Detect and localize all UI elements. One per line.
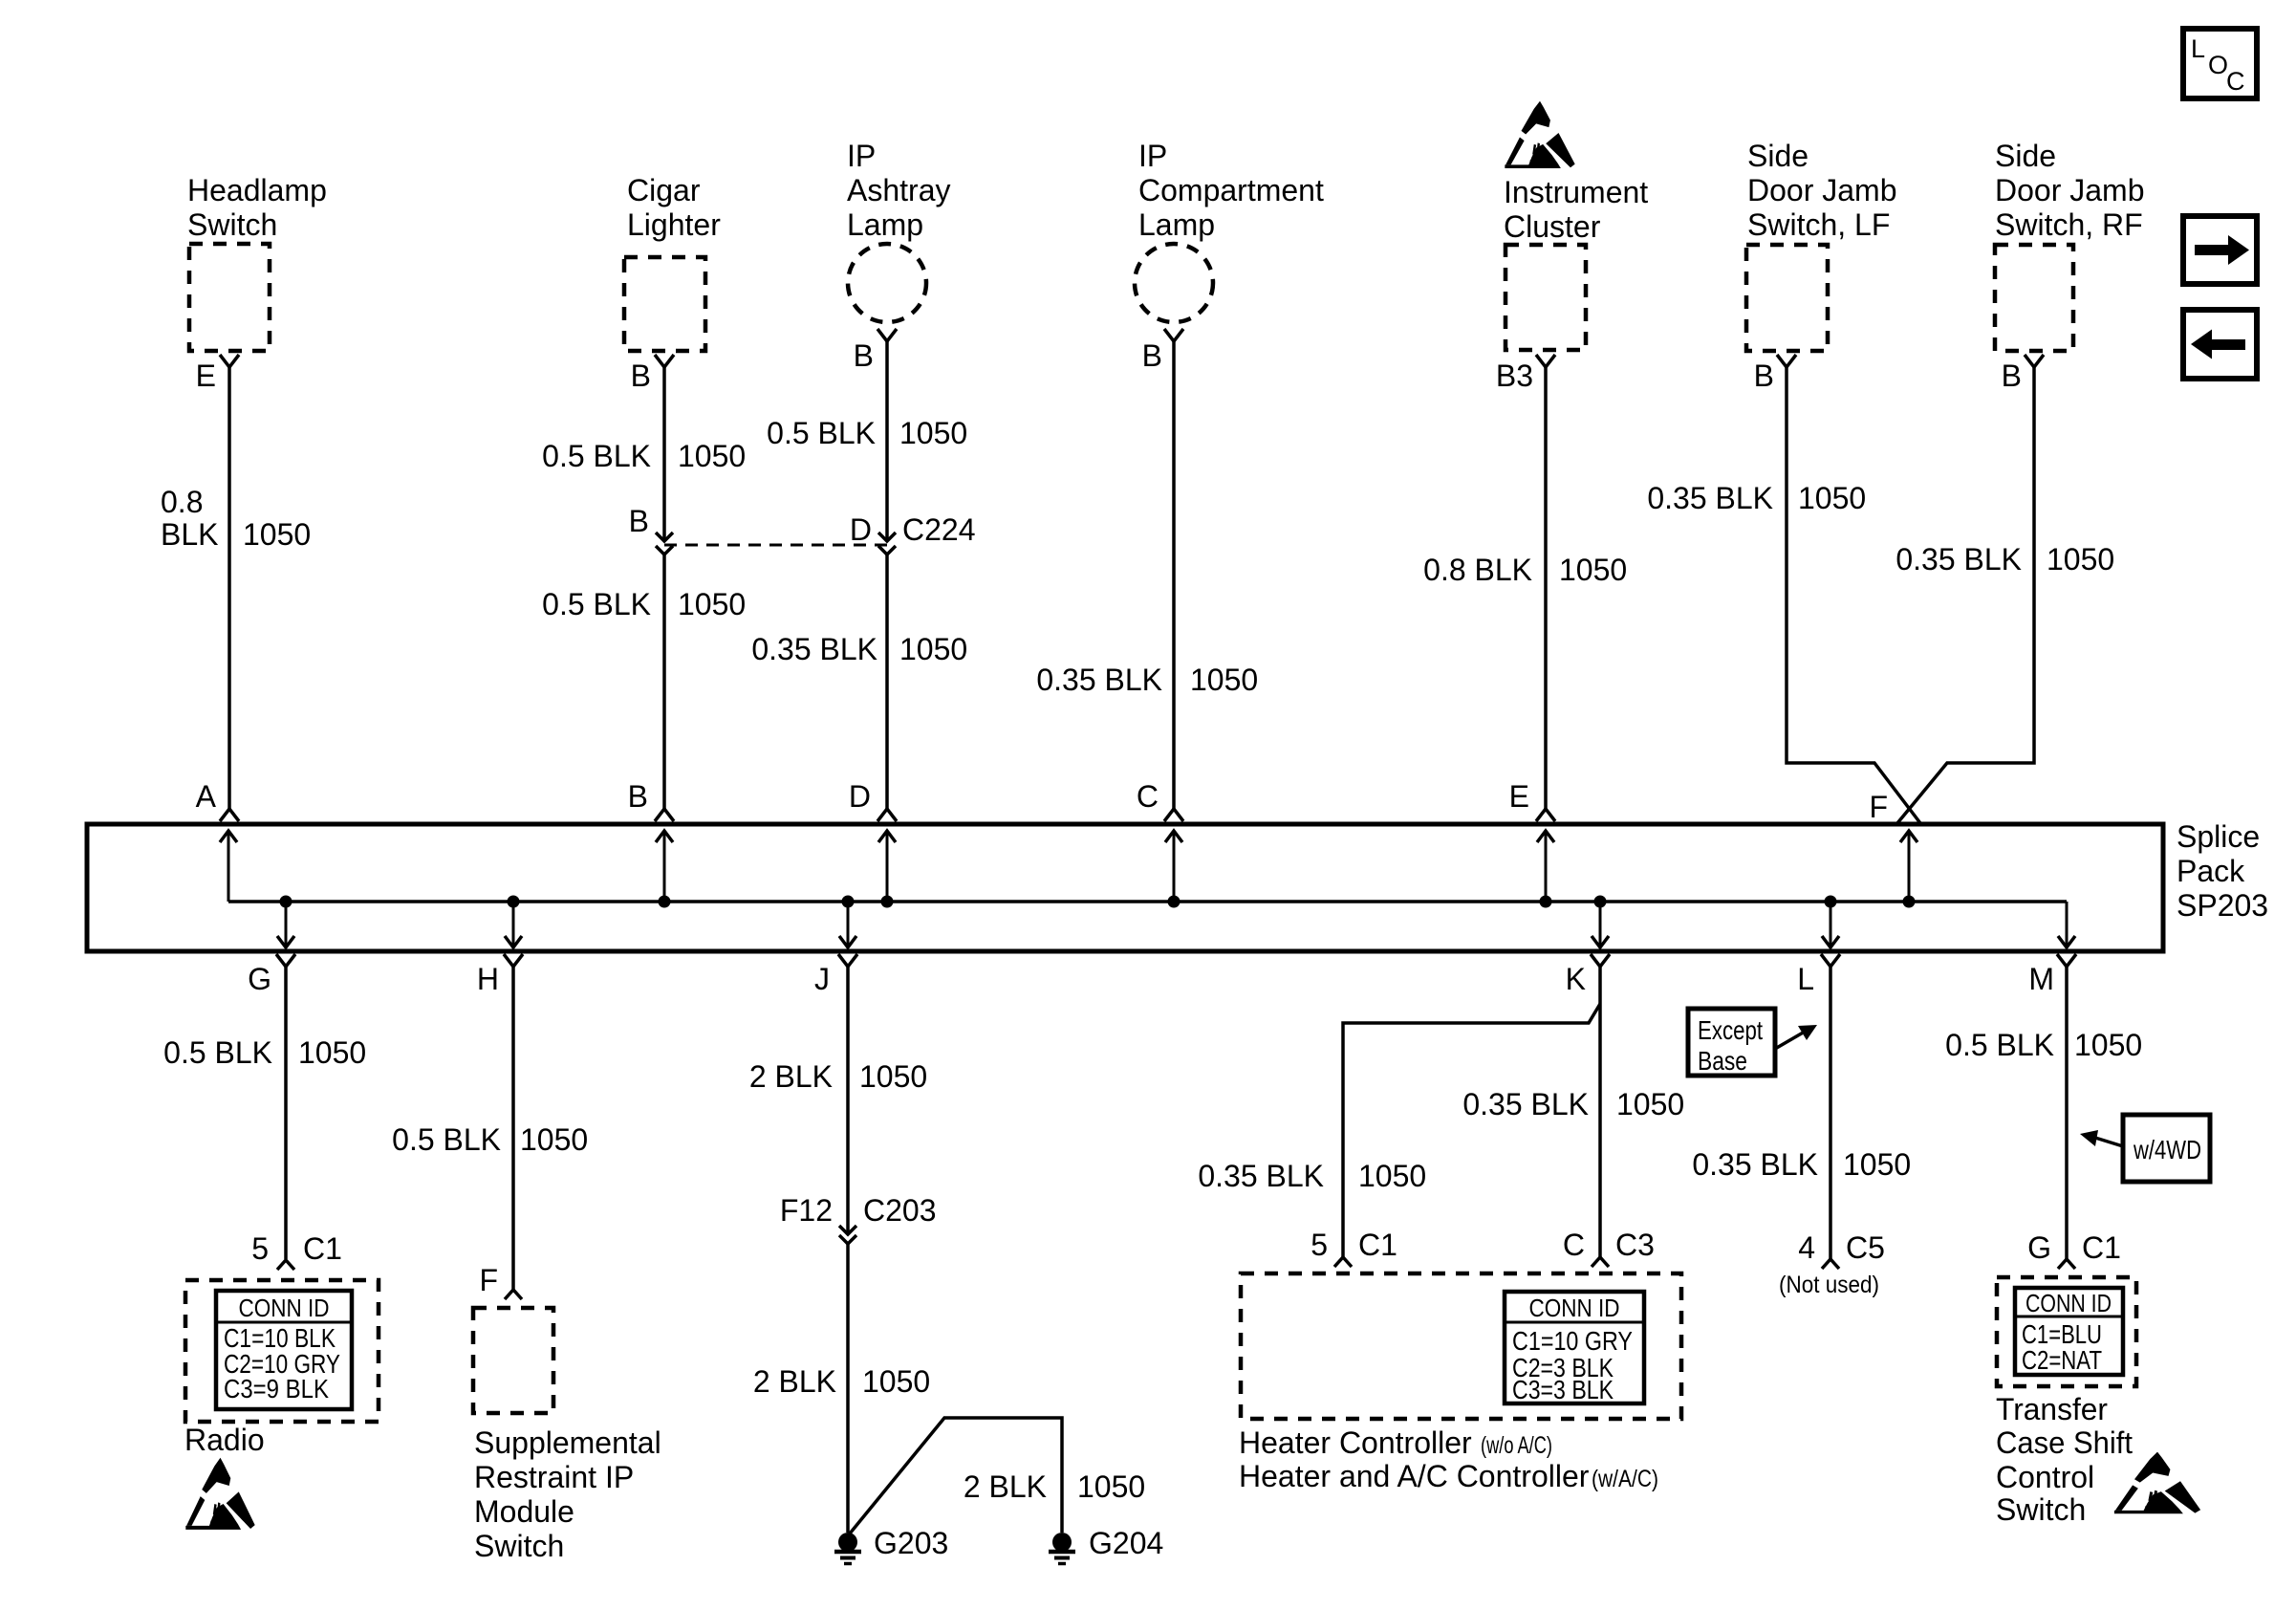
svg-text:B3: B3 — [1496, 359, 1533, 393]
svg-text:SP203: SP203 — [2177, 888, 2268, 923]
side door jamb switch RF component — [1995, 139, 2145, 351]
svg-text:H: H — [477, 962, 499, 996]
svg-text:Module: Module — [474, 1494, 574, 1529]
svg-text:Door Jamb: Door Jamb — [1747, 173, 1897, 207]
wire label 0.35 BLK 1050 — [751, 632, 967, 666]
wire label 0.35 BLK 1050 — [1647, 481, 1866, 515]
junction dot E — [1540, 896, 1552, 908]
connector fork at splice node H — [477, 954, 523, 996]
radio pin 5 C1 labels — [251, 1231, 342, 1266]
svg-text:CONN ID: CONN ID — [2025, 1289, 2112, 1317]
svg-text:Door Jamb: Door Jamb — [1995, 173, 2145, 207]
svg-text:E: E — [1509, 779, 1529, 814]
ESD symbol beside transfer case switch — [2114, 1452, 2200, 1514]
svg-text:Pack: Pack — [2177, 854, 2245, 888]
svg-text:BLK: BLK — [161, 517, 218, 552]
svg-text:(w/A/C): (w/A/C) — [1592, 1466, 1658, 1492]
connector C224 pin D label — [850, 512, 976, 547]
svg-text:Switch: Switch — [474, 1529, 564, 1563]
heater CONN ID table — [1505, 1292, 1644, 1404]
svg-text:Headlamp: Headlamp — [187, 173, 327, 207]
junction dot L — [1825, 896, 1837, 908]
svg-text:C2=NAT: C2=NAT — [2022, 1345, 2102, 1375]
svg-text:1050: 1050 — [243, 517, 311, 552]
wire label 0.5 BLK 1050 — [1945, 1028, 2142, 1062]
svg-text:1050: 1050 — [862, 1364, 930, 1399]
connector C203 pin F12 labels — [780, 1193, 937, 1228]
svg-text:B: B — [628, 779, 648, 814]
splice riser B — [656, 831, 673, 902]
wire label 0.5 BLK 1050 lower — [542, 587, 746, 621]
splice node F label — [1869, 790, 1888, 824]
svg-text:C224: C224 — [902, 512, 976, 547]
splice riser H — [505, 902, 522, 947]
svg-text:0.35 BLK: 0.35 BLK — [1036, 663, 1162, 697]
svg-text:5: 5 — [1310, 1228, 1328, 1262]
splice riser J — [839, 902, 856, 947]
wire label 0.35 BLK 1050 on K branch — [1198, 1159, 1426, 1193]
wire splice J to connector C203 — [846, 967, 850, 1234]
SRS pin F label — [479, 1263, 498, 1297]
svg-text:C1: C1 — [2082, 1230, 2121, 1265]
svg-text:Side: Side — [1995, 139, 2056, 173]
svg-text:1050: 1050 — [859, 1059, 927, 1094]
svg-text:0.5 BLK: 0.5 BLK — [163, 1035, 272, 1070]
junction dot C — [1168, 896, 1180, 908]
svg-text:1050: 1050 — [1843, 1147, 1911, 1182]
svg-text:1050: 1050 — [899, 416, 967, 450]
ESD symbol above instrument cluster — [1505, 101, 1574, 168]
wire label 2 BLK 1050 — [749, 1059, 927, 1094]
svg-text:1050: 1050 — [1190, 663, 1258, 697]
wire label 0.35 BLK 1050 — [1692, 1147, 1911, 1182]
dashed connector line C224 — [664, 544, 887, 547]
svg-text:C: C — [2226, 67, 2245, 96]
svg-text:D: D — [849, 779, 871, 814]
svg-text:1050: 1050 — [1077, 1469, 1145, 1504]
heater pin C C3 labels — [1563, 1228, 1655, 1262]
IP compartment lamp component — [1135, 139, 1324, 322]
heater pin 5 C1 labels — [1310, 1228, 1397, 1262]
transfer CONN ID table — [2015, 1288, 2123, 1375]
svg-text:Case Shift: Case Shift — [1996, 1425, 2133, 1460]
svg-text:CONN ID: CONN ID — [239, 1294, 330, 1322]
svg-text:G: G — [2027, 1230, 2051, 1265]
connector fork pin E of headlamp switch — [196, 355, 239, 393]
IP ashtray lamp component — [847, 139, 950, 322]
svg-text:C: C — [1563, 1228, 1585, 1262]
LOC legend box — [2183, 29, 2257, 98]
splice riser L — [1822, 902, 1839, 947]
radio label — [184, 1423, 265, 1457]
connector fork at splice node D — [849, 779, 897, 821]
svg-text:B: B — [629, 504, 649, 538]
svg-text:E: E — [196, 359, 216, 393]
in-line connector C224 at ashtray wire — [878, 533, 896, 555]
svg-text:1050: 1050 — [298, 1035, 366, 1070]
connector fork pin B of ashtray lamp — [854, 329, 897, 373]
transfer pin G C1 labels — [2027, 1230, 2121, 1265]
svg-text:Compartment: Compartment — [1138, 173, 1324, 207]
svg-text:Restraint IP: Restraint IP — [474, 1460, 634, 1494]
splice riser M — [2058, 902, 2075, 947]
svg-text:2 BLK: 2 BLK — [749, 1059, 833, 1094]
wire C203 to ground G203 — [846, 1244, 850, 1533]
svg-text:Cigar: Cigar — [627, 173, 701, 207]
side door jamb switch LF component — [1746, 139, 1897, 351]
svg-text:Ashtray: Ashtray — [847, 173, 950, 207]
not used label — [1779, 1272, 1879, 1298]
ground G203 — [834, 1526, 948, 1564]
except base callout box — [1688, 1009, 1817, 1076]
svg-text:C203: C203 — [863, 1193, 937, 1228]
svg-text:0.35 BLK: 0.35 BLK — [1198, 1159, 1324, 1193]
connector fork pin B3 of instrument cluster — [1496, 355, 1555, 393]
splice riser C — [1165, 831, 1182, 902]
svg-text:C1: C1 — [1358, 1228, 1397, 1262]
svg-text:0.35 BLK: 0.35 BLK — [1462, 1087, 1589, 1121]
splice riser K — [1592, 902, 1609, 947]
junction dot D — [881, 896, 894, 908]
svg-text:2 BLK: 2 BLK — [753, 1364, 836, 1399]
svg-text:B: B — [631, 359, 651, 393]
transfer case shift control switch component box — [1997, 1277, 2136, 1386]
connector fork at splice node C — [1137, 779, 1183, 821]
svg-text:C5: C5 — [1846, 1230, 1885, 1265]
svg-text:4: 4 — [1798, 1230, 1815, 1265]
wire cigar C224 to splice B — [662, 555, 666, 809]
svg-text:C3: C3 — [1615, 1228, 1655, 1262]
heater controller labels — [1239, 1425, 1658, 1493]
svg-text:Instrument: Instrument — [1504, 175, 1648, 209]
svg-text:Supplemental: Supplemental — [474, 1425, 661, 1460]
splice pack internal bus wire — [228, 900, 2067, 903]
splice riser D — [878, 831, 896, 902]
connector fork at splice node K — [1566, 954, 1610, 996]
connector fork at splice node M — [2028, 954, 2076, 996]
wire splice K to heater controller C3 — [1598, 967, 1602, 1257]
splice riser A — [220, 831, 237, 902]
splice riser G — [277, 902, 294, 947]
svg-text:0.5 BLK: 0.5 BLK — [542, 439, 651, 473]
svg-text:Lamp: Lamp — [1138, 207, 1215, 242]
wire label 0.8 BLK 1050 — [1423, 553, 1627, 587]
svg-text:2 BLK: 2 BLK — [964, 1469, 1047, 1504]
svg-text:J: J — [814, 962, 830, 996]
w4WD callout box — [2080, 1115, 2210, 1182]
svg-text:Splice: Splice — [2177, 819, 2260, 854]
wire instrument cluster B3 to splice E — [1544, 367, 1548, 809]
connector fork pin B of cigar lighter — [631, 355, 674, 393]
svg-text:B: B — [854, 338, 874, 373]
svg-text:Lamp: Lamp — [847, 207, 923, 242]
svg-text:F12: F12 — [780, 1193, 833, 1228]
instrument cluster component — [1504, 175, 1648, 350]
svg-text:Transfer: Transfer — [1996, 1392, 2108, 1426]
wire jamb switch LF to splice F — [1787, 367, 1920, 823]
svg-text:0.35 BLK: 0.35 BLK — [1647, 481, 1773, 515]
svg-text:1050: 1050 — [1616, 1087, 1684, 1121]
svg-text:0.5 BLK: 0.5 BLK — [542, 587, 651, 621]
svg-text:1050: 1050 — [1559, 553, 1627, 587]
svg-text:Heater and A/C Controller: Heater and A/C Controller — [1239, 1459, 1590, 1493]
wire branch K to heater controller C1 — [1343, 1004, 1600, 1257]
in-line connector C203 — [839, 1226, 856, 1244]
junction dot G — [280, 896, 292, 908]
svg-text:IP: IP — [1138, 139, 1167, 173]
wire label 0.35 BLK 1050 — [1036, 663, 1258, 697]
svg-text:K: K — [1566, 962, 1586, 996]
wire label 0.5 BLK 1050 — [392, 1122, 588, 1157]
wire label 0.5 BLK 1050 — [767, 416, 967, 450]
splice riser F — [1900, 831, 1917, 902]
connector fork at heater pin 5 — [1334, 1257, 1352, 1267]
svg-text:0.35 BLK: 0.35 BLK — [1692, 1147, 1818, 1182]
svg-text:L: L — [2191, 34, 2205, 63]
svg-text:Control: Control — [1996, 1460, 2094, 1494]
svg-text:0.35 BLK: 0.35 BLK — [751, 632, 877, 666]
connector fork pin B of compartment lamp — [1142, 329, 1183, 373]
transfer case shift control switch labels — [1996, 1392, 2133, 1527]
supplemental restraint IP module switch component — [473, 1308, 661, 1563]
svg-text:O: O — [2208, 51, 2228, 79]
wire jamb switch RF to splice F — [1897, 367, 2034, 823]
svg-text:Radio: Radio — [184, 1423, 265, 1457]
wire compartment lamp B to splice C — [1172, 341, 1176, 809]
junction dot F — [1903, 896, 1916, 908]
wire label 0.8 BLK 1050 — [161, 485, 311, 552]
connector fork at splice node B — [628, 779, 674, 821]
svg-text:1050: 1050 — [678, 439, 746, 473]
svg-text:B: B — [1754, 359, 1774, 393]
svg-text:Except: Except — [1698, 1015, 1763, 1045]
wire label 0.35 BLK 1050 — [1895, 542, 2114, 577]
svg-text:(Not used): (Not used) — [1779, 1272, 1879, 1298]
connector fork at splice node L — [1797, 954, 1840, 996]
radio CONN ID table — [216, 1291, 352, 1409]
svg-text:Side: Side — [1747, 139, 1809, 173]
connector fork at transfer pin G — [2058, 1259, 2075, 1269]
headlamp switch component — [187, 173, 327, 351]
wire label 0.35 BLK 1050 on K main — [1462, 1087, 1684, 1121]
connector fork at L pin 4 — [1822, 1259, 1839, 1269]
svg-text:F: F — [479, 1263, 498, 1297]
svg-text:1050: 1050 — [2047, 542, 2114, 577]
svg-text:0.5 BLK: 0.5 BLK — [767, 416, 876, 450]
junction dot K — [1594, 896, 1607, 908]
svg-text:Lighter: Lighter — [627, 207, 721, 242]
wire splice G to radio — [284, 967, 288, 1259]
svg-text:1050: 1050 — [678, 587, 746, 621]
svg-text:B: B — [2002, 359, 2022, 393]
wire splice L not used stub — [1829, 967, 1832, 1259]
svg-text:IP: IP — [847, 139, 876, 173]
wire label 0.5 BLK 1050 — [542, 439, 746, 473]
ESD symbol below radio — [185, 1458, 254, 1530]
L pin 4 C5 labels — [1798, 1230, 1885, 1265]
svg-text:L: L — [1797, 962, 1814, 996]
svg-text:D: D — [850, 512, 872, 547]
connector fork at splice node G — [248, 954, 295, 996]
wire branch G203 to G204 — [850, 1418, 1062, 1534]
svg-text:B: B — [1142, 338, 1162, 373]
connector fork at heater pin C — [1592, 1257, 1609, 1267]
svg-text:1050: 1050 — [520, 1122, 588, 1157]
svg-text:C3=9 BLK: C3=9 BLK — [224, 1374, 329, 1403]
wire headlamp switch E to splice A — [227, 367, 231, 809]
connector fork at splice node E — [1509, 779, 1555, 821]
in-line connector C224 at cigar wire — [656, 533, 673, 555]
connector fork at radio pin 5 — [277, 1260, 294, 1270]
wire label 2 BLK 1050 — [753, 1364, 930, 1399]
wire splice M to transfer case switch — [2065, 967, 2069, 1259]
svg-text:1050: 1050 — [2074, 1028, 2142, 1062]
cigar lighter component — [624, 173, 721, 351]
junction dot J — [842, 896, 855, 908]
svg-text:C: C — [1137, 779, 1159, 814]
connector fork at splice node A — [196, 779, 239, 821]
svg-text:CONN ID: CONN ID — [1529, 1294, 1620, 1322]
radio component box — [185, 1280, 379, 1422]
svg-text:(w/o A/C): (w/o A/C) — [1481, 1432, 1552, 1459]
connector fork at splice node J — [814, 954, 857, 996]
svg-text:1050: 1050 — [1798, 481, 1866, 515]
svg-text:C1: C1 — [303, 1231, 342, 1266]
svg-text:Switch, RF: Switch, RF — [1995, 207, 2143, 242]
svg-text:Switch, LF: Switch, LF — [1747, 207, 1890, 242]
svg-text:C1=10 GRY: C1=10 GRY — [1512, 1326, 1633, 1356]
svg-text:1050: 1050 — [1358, 1159, 1426, 1193]
wire ashtray C224 to splice D — [885, 555, 889, 809]
connector fork pin B of jamb switch RF — [2002, 355, 2044, 393]
svg-text:Cluster: Cluster — [1504, 209, 1601, 244]
svg-text:Base: Base — [1698, 1046, 1747, 1076]
svg-text:0.8 BLK: 0.8 BLK — [1423, 553, 1532, 587]
legend arrow box left — [2183, 310, 2257, 379]
svg-text:A: A — [196, 779, 217, 814]
svg-text:5: 5 — [251, 1231, 269, 1266]
connector fork at SRS pin F — [505, 1290, 522, 1299]
junction dot B — [659, 896, 671, 908]
svg-text:C3=3 BLK: C3=3 BLK — [1512, 1375, 1614, 1404]
svg-text:0.35 BLK: 0.35 BLK — [1895, 542, 2022, 577]
wire label 2 BLK 1050 — [964, 1469, 1145, 1504]
wire label 0.5 BLK 1050 — [163, 1035, 366, 1070]
wire ashtray lamp B to connector C224 — [885, 341, 889, 541]
svg-text:G203: G203 — [874, 1526, 948, 1560]
svg-text:1050: 1050 — [899, 632, 967, 666]
svg-text:G: G — [248, 962, 271, 996]
connector C224 pin B label — [629, 504, 649, 538]
splice riser E — [1537, 831, 1554, 902]
svg-text:G204: G204 — [1089, 1526, 1163, 1560]
svg-text:Switch: Switch — [1996, 1492, 2086, 1527]
junction dot H — [508, 896, 520, 908]
ground G204 — [1049, 1526, 1163, 1564]
svg-text:M: M — [2028, 962, 2054, 996]
heater controller component box — [1241, 1273, 1681, 1419]
svg-text:0.5 BLK: 0.5 BLK — [1945, 1028, 2054, 1062]
svg-text:0.5 BLK: 0.5 BLK — [392, 1122, 501, 1157]
splice pack SP203 box — [87, 819, 2268, 951]
legend arrow box right — [2183, 216, 2257, 284]
svg-text:F: F — [1869, 790, 1888, 824]
svg-text:w/4WD: w/4WD — [2133, 1135, 2201, 1164]
wire cigar lighter B to connector C224 — [662, 367, 666, 541]
wire splice H to SRS module switch — [511, 967, 515, 1290]
svg-text:0.8: 0.8 — [161, 485, 203, 519]
connector fork pin B of jamb switch LF — [1754, 355, 1796, 393]
svg-text:Heater Controller: Heater Controller — [1239, 1425, 1472, 1460]
svg-text:Switch: Switch — [187, 207, 277, 242]
